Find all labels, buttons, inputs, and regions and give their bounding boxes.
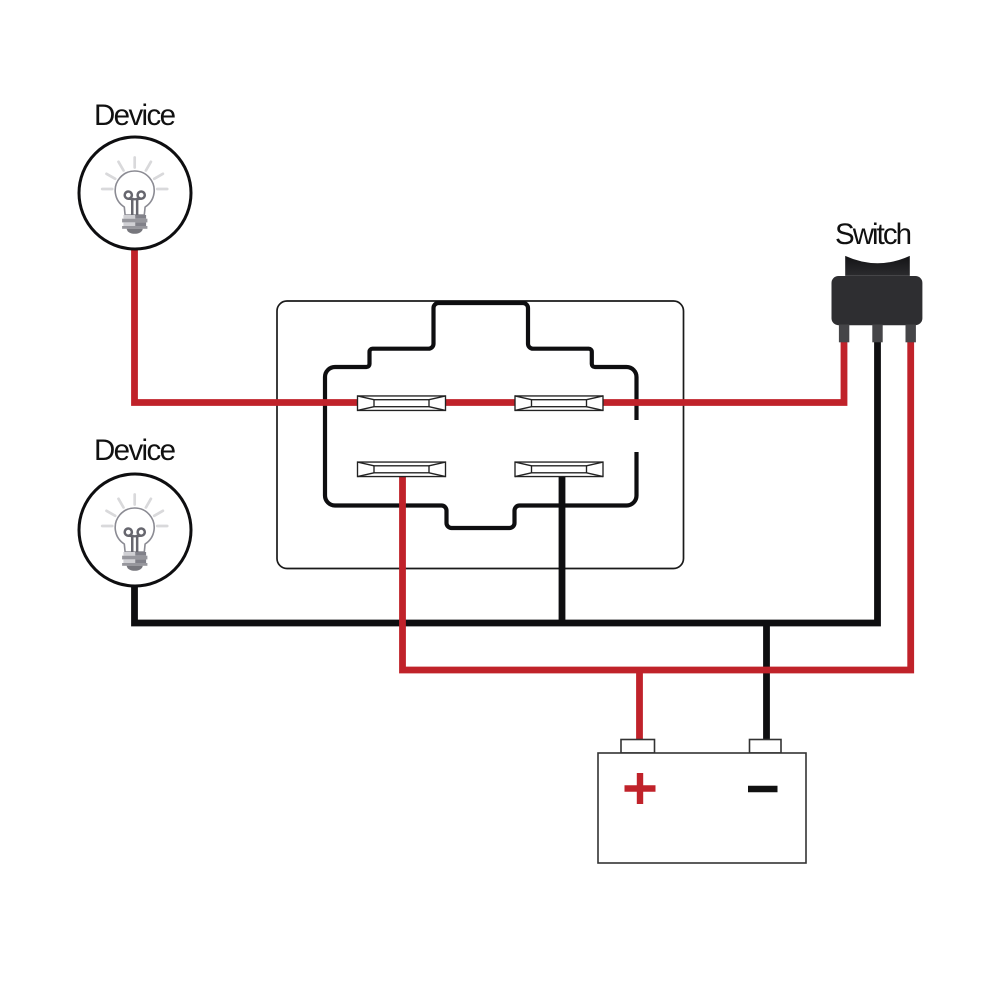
wire: black bus down to battery negative [763, 623, 770, 742]
device D1 bulb icon [102, 158, 167, 234]
battery plus symbol [625, 773, 656, 804]
svg-text:Device: Device [94, 434, 176, 467]
switch rocker button [845, 256, 910, 276]
wire: red branch down to battery positive [636, 670, 643, 742]
relay socket outer box [277, 301, 684, 569]
relay terminal 1 (upper left) [358, 396, 446, 411]
relay terminal 3 (lower left) [358, 462, 446, 477]
switch pin 3 [906, 325, 916, 343]
battery negative terminal [750, 740, 782, 754]
wire: red switch right pin down and across to relay terminal 3 [403, 336, 911, 670]
relay body outline [325, 303, 637, 528]
battery positive terminal [621, 740, 655, 754]
device D1 (lamp) circle [79, 137, 191, 249]
switch pin 1 [839, 325, 849, 343]
switch body [832, 276, 923, 325]
relay terminal 2 (upper right) [515, 396, 603, 411]
wire: black relay terminal 4 down to black bus [559, 475, 566, 623]
battery body [598, 753, 806, 863]
wire: red device1 through relay terminals to switch left pin [135, 243, 845, 403]
device D2 bulb icon [102, 495, 167, 571]
device D2 (lamp) circle [79, 474, 191, 586]
battery minus symbol [748, 786, 778, 792]
switch pin 2 [872, 325, 882, 343]
relay terminal 4 (lower right) [515, 462, 603, 477]
svg-text:Switch: Switch [835, 218, 912, 251]
svg-text:Device: Device [94, 99, 176, 132]
wire: black device2 to switch center pin [135, 336, 878, 623]
